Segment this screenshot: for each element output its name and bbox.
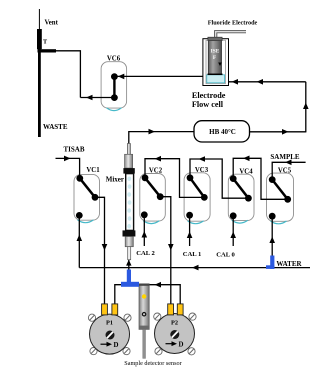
svg-text:D: D: [114, 342, 119, 349]
svg-text:P1: P1: [106, 320, 113, 327]
wire right riser HB to cell: [305, 82, 307, 133]
arrow left on P2-to-tee line: [155, 282, 162, 288]
svg-text:D: D: [179, 341, 184, 348]
arrow up into VC5 bottom: [269, 237, 275, 244]
mixer column: [123, 144, 136, 260]
valve VC4 body: [228, 174, 254, 223]
wire SAMPLE inlet to VC5 top: [272, 162, 305, 179]
wire VC2 out to pump P2 left: [160, 197, 171, 305]
svg-text:VC6: VC6: [107, 56, 121, 63]
svg-text:TISAB: TISAB: [63, 146, 84, 154]
valve VC3 body: [184, 173, 210, 224]
blue tee junction: [121, 270, 139, 287]
valve VC5 internals: [269, 176, 291, 219]
svg-text:Sample detector sensor: Sample detector sensor: [124, 360, 181, 367]
wire P2 right fitting to tee: [139, 285, 180, 305]
svg-text:CAL 0: CAL 0: [216, 252, 235, 259]
blue water stub at VC5: [270, 256, 274, 269]
arrow right into HB: [149, 129, 156, 135]
wire TISAB inlet: [56, 158, 80, 178]
arrow up into VC3 bottom: [187, 232, 193, 239]
arrow left on SAMPLE: [285, 160, 292, 166]
arrow up into VC4 bottom: [230, 232, 236, 239]
arrow left cascade 4to3: [199, 156, 206, 162]
arrow left on VC6 waste line: [86, 95, 93, 101]
svg-text:VC4: VC4: [239, 169, 253, 176]
svg-text:Vent: Vent: [45, 20, 59, 27]
valve VC6 internals: [111, 73, 118, 101]
svg-text:WATER: WATER: [276, 260, 302, 268]
svg-text:Fluoride Electrode: Fluoride Electrode: [208, 20, 258, 27]
wire P1 right fitting to tee: [115, 285, 135, 305]
svg-text:VC5: VC5: [278, 168, 292, 175]
wire water manifold: [79, 267, 310, 269]
valve VC4 internals: [230, 175, 252, 219]
valve VC2 body: [140, 174, 166, 224]
svg-text:VC2: VC2: [149, 168, 163, 175]
svg-text:VC3: VC3: [195, 167, 209, 174]
wire water to VC5 bottom: [271, 216, 273, 256]
valve VC2 internals: [141, 174, 164, 218]
arrow left cascade 3to2: [155, 156, 162, 162]
arrow up on right riser: [303, 103, 309, 110]
wire CAL0 inlet to VC4 bottom: [232, 216, 234, 246]
svg-text:CAL 1: CAL 1: [183, 251, 202, 258]
wire CAL2 inlet to VC2 bottom: [143, 215, 145, 246]
arrow down on VC2 out: [168, 244, 174, 251]
wire VC1 bottom to water line: [78, 215, 80, 267]
wire riser to VC6 bottom port: [80, 97, 114, 99]
wire VC1 out to pump P1 left: [95, 197, 105, 304]
wire T to riser: [39, 51, 80, 98]
svg-text:HB 40°C: HB 40°C: [209, 128, 236, 136]
arrow left cascade 5to4: [243, 156, 250, 162]
T connector block: [37, 29, 42, 49]
wire mixer outlet down to tee: [128, 259, 130, 271]
arrow up into VC1 bottom: [77, 235, 83, 242]
electrode flow cell: [203, 32, 246, 86]
arrow up into VC2 bottom: [142, 231, 148, 238]
valve VC1 internals: [76, 175, 99, 219]
wire cascade VC5 out to VC4 top: [233, 158, 288, 199]
wire cascade VC4 out to VC3 top: [190, 159, 248, 198]
wire HB right output: [250, 131, 306, 133]
svg-text:WASTE: WASTE: [43, 123, 68, 131]
arrow left on water manifold: [192, 265, 199, 271]
valve VC5 body: [267, 173, 294, 224]
svg-text:P2: P2: [171, 320, 178, 327]
arrow right on TISAB: [64, 156, 71, 162]
wire waste line (thick): [38, 29, 41, 137]
svg-text:Mixer: Mixer: [106, 176, 124, 184]
svg-text:Flow cell: Flow cell: [192, 100, 224, 109]
wire vent line (thin top): [38, 9, 40, 30]
svg-text:CAL 2: CAL 2: [136, 250, 155, 257]
svg-text:VC1: VC1: [86, 167, 100, 174]
arrow left into VC6 top: [118, 74, 125, 80]
arrow left mid inlet line: [257, 79, 264, 85]
arrow right on HB output: [282, 129, 289, 135]
wire cascade VC3 out to VC2 top: [145, 159, 204, 198]
pump P1: [88, 304, 131, 355]
pump P2: [154, 304, 196, 355]
svg-text:ISE: ISE: [211, 49, 220, 55]
wire CAL1 inlet to VC3 bottom: [189, 215, 191, 246]
arrow left into flow cell: [232, 79, 239, 85]
valve VC3 internals: [186, 174, 208, 218]
detector bar: [139, 284, 149, 359]
valve VC6 body: [101, 62, 127, 111]
wire flow cell inlet from right: [228, 81, 305, 83]
svg-text:SAMPLE: SAMPLE: [270, 153, 300, 161]
wire flow cell outlet to VC6 top port: [114, 75, 203, 77]
arrow up into mixer: [126, 260, 131, 266]
arrow down on VC1 out: [102, 244, 108, 251]
heating bath HB box: [194, 121, 250, 142]
wire mixer to HB input: [129, 132, 194, 144]
valve VC1 body: [74, 174, 100, 222]
